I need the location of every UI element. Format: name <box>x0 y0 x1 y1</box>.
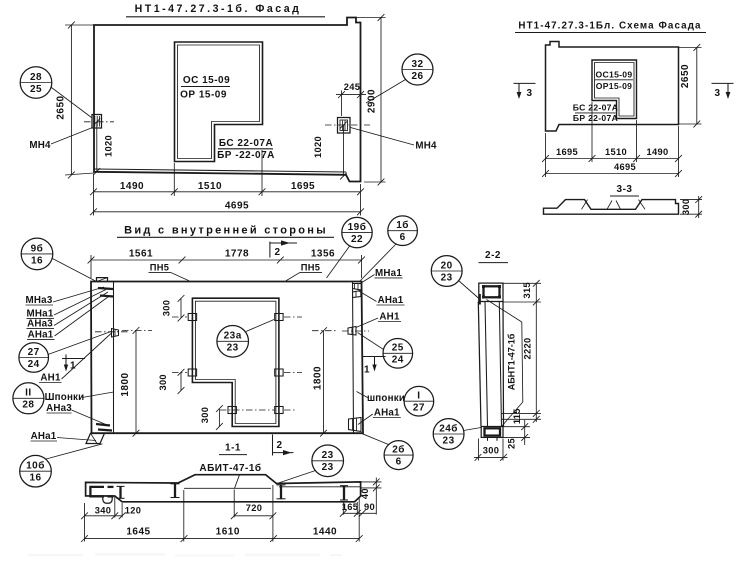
bottom-left anchor marks <box>96 424 110 426</box>
callout 32/26 <box>402 54 433 85</box>
svg-text:24: 24 <box>392 355 404 366</box>
svg-text:1645: 1645 <box>126 527 150 538</box>
dims 165 90 <box>343 512 376 514</box>
svg-text:4695: 4695 <box>614 162 636 172</box>
svg-text:1695: 1695 <box>291 181 315 192</box>
facade window opening <box>175 42 263 162</box>
section mark 1 left <box>62 358 85 360</box>
callout 20/23 <box>431 256 462 287</box>
svg-text:АНа3: АНа3 <box>46 403 72 414</box>
svg-text:1490: 1490 <box>120 181 144 192</box>
svg-text:ПН5: ПН5 <box>150 262 169 272</box>
bottom-right corner clip <box>349 418 362 432</box>
svg-text:32: 32 <box>411 59 423 70</box>
svg-text:6: 6 <box>400 232 406 243</box>
svg-text:25: 25 <box>392 343 404 354</box>
2-2 dim 25 <box>504 426 531 428</box>
svg-text:23: 23 <box>441 272 453 283</box>
svg-text:3: 3 <box>526 88 532 99</box>
svg-text:БР 22-07А: БР 22-07А <box>573 113 618 123</box>
schema window opening <box>592 60 637 119</box>
callout 10b/16 <box>20 455 52 487</box>
svg-text:АН1: АН1 <box>379 312 400 323</box>
schema dim 2650 <box>679 47 702 49</box>
scan smudge bottom <box>28 553 342 557</box>
schema dims 1695 1510 1490 <box>591 102 593 162</box>
svg-text:2: 2 <box>276 440 282 451</box>
svg-text:I: I <box>417 391 420 402</box>
svg-text:28: 28 <box>30 72 42 83</box>
dim 1800 right <box>323 331 325 434</box>
mid-left clip <box>112 329 119 338</box>
dim 300 top <box>180 298 182 318</box>
section 3-3 profile <box>544 200 679 215</box>
facade dim 4695 <box>94 211 361 213</box>
svg-text:АНа1: АНа1 <box>378 295 404 306</box>
svg-text:1695: 1695 <box>556 147 578 157</box>
svg-text:245: 245 <box>344 82 360 92</box>
svg-text:МНа3: МНа3 <box>26 295 53 306</box>
svg-text:10б: 10б <box>26 460 45 472</box>
svg-text:20: 20 <box>441 260 453 271</box>
svg-text:25: 25 <box>507 438 517 449</box>
callout I/27 <box>404 386 434 416</box>
svg-text:120: 120 <box>125 506 141 516</box>
svg-text:2900: 2900 <box>367 89 378 113</box>
svg-text:1778: 1778 <box>225 249 249 260</box>
svg-text:1561: 1561 <box>129 249 153 260</box>
svg-text:27: 27 <box>28 347 40 358</box>
I-beam right end <box>343 486 345 500</box>
svg-text:4695: 4695 <box>225 201 249 212</box>
callout 23a/23 <box>217 326 249 358</box>
leader 23a/23 <box>246 320 274 332</box>
svg-text:1: 1 <box>364 365 370 376</box>
svg-text:16: 16 <box>29 473 41 484</box>
svg-text:23: 23 <box>322 450 334 461</box>
svg-text:2220: 2220 <box>523 338 533 360</box>
svg-text:24: 24 <box>28 359 40 370</box>
dim 245 <box>341 91 343 117</box>
schema dim 4695 <box>546 173 679 175</box>
recess inner line <box>184 487 271 489</box>
svg-text:БС 22-07А: БС 22-07А <box>573 103 619 113</box>
section mark 2 top <box>269 242 271 258</box>
section mark 1 right <box>363 356 386 358</box>
dim 2900 facade <box>356 17 386 19</box>
svg-text:115: 115 <box>512 408 522 424</box>
svg-text:ПН5: ПН5 <box>301 262 320 272</box>
I-beam hump left <box>174 484 176 498</box>
schema panel outline <box>546 42 679 132</box>
facade panel outline <box>94 18 361 182</box>
svg-text:2650: 2650 <box>680 64 691 88</box>
svg-text:28: 28 <box>22 400 34 411</box>
svg-text:300: 300 <box>200 407 210 423</box>
svg-text:НТ1-47.27.3-1б. Фасад: НТ1-47.27.3-1б. Фасад <box>135 3 302 15</box>
svg-text:2б: 2б <box>392 444 405 456</box>
svg-text:2-2: 2-2 <box>485 250 501 261</box>
svg-text:23: 23 <box>322 462 334 473</box>
I-beam left <box>119 486 121 498</box>
callout 27/24 <box>19 343 49 373</box>
I-beam hump right <box>280 485 282 499</box>
svg-text:2650: 2650 <box>56 95 67 119</box>
svg-text:23: 23 <box>227 343 239 354</box>
svg-text:АНа1: АНа1 <box>374 408 400 419</box>
svg-text:ОР15-09: ОР15-09 <box>596 81 633 91</box>
svg-text:27: 27 <box>413 403 425 414</box>
svg-text:АНа1: АНа1 <box>31 431 57 442</box>
svg-text:1800: 1800 <box>120 372 131 396</box>
svg-text:II: II <box>25 388 32 399</box>
svg-text:1-1: 1-1 <box>225 443 241 454</box>
callout 2b/6 <box>384 441 413 470</box>
internal top dims 1561 1778 1356 <box>90 255 92 278</box>
callout 9b/16 <box>21 238 53 270</box>
svg-text:МН4: МН4 <box>415 141 437 152</box>
svg-text:ОС 15-09: ОС 15-09 <box>183 75 230 86</box>
svg-text:165: 165 <box>342 502 358 512</box>
lifting loop below left tail <box>103 496 112 503</box>
2-2 right dims 315 2220 115 <box>503 282 541 284</box>
mid-right clip <box>348 327 356 336</box>
embed MN4 right <box>338 118 351 134</box>
svg-text:БС 22-07А: БС 22-07А <box>219 138 273 149</box>
svg-text:АНа3: АНа3 <box>27 319 53 330</box>
dim 40 right end <box>361 481 382 483</box>
svg-text:ОС15-09: ОС15-09 <box>596 70 633 80</box>
section 1-1 extension lines <box>84 503 86 542</box>
embed MN4 left <box>92 115 102 129</box>
section mark 2 bottom <box>272 435 274 456</box>
section mark 3 left <box>514 82 536 84</box>
svg-text:19б: 19б <box>348 221 367 233</box>
dim 1020 right <box>343 125 345 176</box>
dims 340 120 <box>85 515 123 517</box>
window fixing clips <box>188 314 196 321</box>
bottom-left tab <box>86 433 105 443</box>
callout 23/23 <box>312 445 344 477</box>
callout 25/24 <box>383 339 413 369</box>
dim 300 mid <box>180 372 182 390</box>
svg-text:БР -22-07А: БР -22-07А <box>217 150 275 161</box>
svg-text:23: 23 <box>443 435 455 446</box>
svg-text:АН1: АН1 <box>40 373 61 384</box>
svg-text:25: 25 <box>30 84 42 95</box>
2-2 top embed box <box>479 283 503 301</box>
svg-text:22: 22 <box>351 234 363 245</box>
svg-text:24б: 24б <box>439 422 458 434</box>
callout 28/25 <box>20 67 52 99</box>
svg-text:40: 40 <box>360 488 370 499</box>
internal panel left rib <box>113 282 115 434</box>
clip centerlines <box>172 316 187 318</box>
callout 1b/6 <box>388 216 418 246</box>
svg-text:340: 340 <box>95 506 111 516</box>
svg-text:НТ1-47.27.3-1Бл. Схема Фасада: НТ1-47.27.3-1Бл. Схема Фасада <box>518 21 701 32</box>
2-2 body <box>478 302 481 427</box>
svg-text:6: 6 <box>396 457 402 468</box>
svg-text:300: 300 <box>681 199 691 215</box>
svg-text:315: 315 <box>522 282 532 298</box>
svg-text:90: 90 <box>364 502 375 512</box>
svg-text:3: 3 <box>714 88 720 99</box>
svg-text:1510: 1510 <box>198 181 222 192</box>
dim 1800 left <box>135 330 137 433</box>
top-left anchor marks <box>98 288 113 289</box>
svg-text:16: 16 <box>31 255 43 266</box>
svg-text:2: 2 <box>274 247 280 258</box>
anchor channel left <box>90 487 104 497</box>
svg-text:300: 300 <box>162 300 172 316</box>
dim 1020 left <box>96 122 98 172</box>
2-2 dim 300 <box>478 439 480 461</box>
dim 2650 facade <box>65 24 94 26</box>
internal panel outline <box>91 282 363 434</box>
facade bottom dims 1490 1510 1695 <box>173 163 175 196</box>
svg-text:АБНТ1-47-1б: АБНТ1-47-1б <box>507 333 517 390</box>
callout 19b/22 <box>342 217 372 247</box>
dims 1645 1610 1440 <box>85 538 360 540</box>
svg-text:АБИТ-47-1б: АБИТ-47-1б <box>199 462 261 474</box>
svg-text:1490: 1490 <box>647 147 669 157</box>
svg-text:1440: 1440 <box>313 527 337 538</box>
section mark 3 right <box>712 82 734 84</box>
svg-text:1800: 1800 <box>313 366 324 390</box>
callout II/28 <box>13 383 44 414</box>
svg-text:1356: 1356 <box>311 249 335 260</box>
svg-text:МН4: МН4 <box>29 140 51 151</box>
svg-text:1020: 1020 <box>104 135 114 157</box>
top-right corner clip <box>353 284 362 291</box>
svg-text:МНа1: МНа1 <box>375 268 402 279</box>
svg-text:720: 720 <box>246 503 262 513</box>
svg-text:Вид с внутренней стороны: Вид с внутренней стороны <box>124 225 328 237</box>
svg-text:300: 300 <box>158 374 168 390</box>
svg-text:23а: 23а <box>224 331 242 342</box>
top-left corner tab <box>97 278 108 282</box>
leader 28/25 <box>52 88 92 118</box>
svg-text:1610: 1610 <box>216 527 240 538</box>
section 1-1 profile outline <box>86 475 361 502</box>
internal panel right rib <box>353 282 354 434</box>
svg-text:1510: 1510 <box>605 147 627 157</box>
leader 32/26 <box>366 80 406 104</box>
dim 720 <box>234 515 273 517</box>
section 3-3 dim 300 <box>680 199 702 201</box>
svg-text:9б: 9б <box>31 242 44 254</box>
svg-text:3-3: 3-3 <box>617 184 633 195</box>
svg-text:ОР 15-09: ОР 15-09 <box>180 90 227 101</box>
svg-text:300: 300 <box>483 446 499 456</box>
svg-text:АНа1: АНа1 <box>28 330 54 341</box>
2-2 bottom embed box <box>481 427 503 438</box>
internal window opening <box>192 298 279 426</box>
svg-text:26: 26 <box>411 71 423 82</box>
svg-text:Шпонки: Шпонки <box>45 392 85 403</box>
facade panel bottom band <box>94 169 346 172</box>
svg-text:1б: 1б <box>396 219 409 231</box>
callout 24b/23 <box>433 419 464 450</box>
svg-text:шпонки: шпонки <box>367 393 405 404</box>
svg-text:1020: 1020 <box>313 136 323 158</box>
dim 300 bottom <box>218 409 220 427</box>
